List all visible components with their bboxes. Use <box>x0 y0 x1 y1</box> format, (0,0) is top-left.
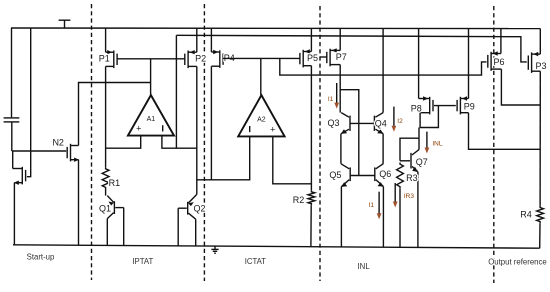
wire: N2 source to ground rail <box>78 160 80 246</box>
svg-text:P5: P5 <box>307 53 318 63</box>
op-amp A2 <box>238 95 284 136</box>
svg-text:P9: P9 <box>464 102 475 112</box>
wire: P1-P2 common gate line <box>117 58 185 60</box>
section label: Start-up <box>27 252 55 261</box>
svg-text:Q5: Q5 <box>329 170 341 180</box>
svg-text:I1: I1 <box>328 96 334 103</box>
svg-text:Q1: Q1 <box>99 203 111 213</box>
svg-text:A1: A1 <box>147 116 156 123</box>
svg-text:Q4: Q4 <box>375 118 387 128</box>
svg-text:IPTAT: IPTAT <box>132 257 153 266</box>
svg-text:R2: R2 <box>293 195 305 205</box>
section divider dashed line 1 (Start-up | IPTAT) <box>91 4 93 280</box>
current arrow IR3 <box>393 183 398 208</box>
wire: R4 bottom to ground <box>539 223 541 248</box>
current arrow I1 (top) <box>334 83 339 109</box>
wire: N1 drain from node line <box>12 151 14 169</box>
wire: branch to Q7 base and R3 <box>400 138 419 161</box>
wire: VDD top rail <box>11 27 540 30</box>
PMOS transistor P7 <box>327 48 340 66</box>
resistor R1 <box>102 167 109 189</box>
ground symbol (ICTAT) <box>211 246 218 253</box>
wire: Q2 base to ground <box>177 208 179 246</box>
op-amp A1 <box>128 95 174 136</box>
wire: N2 drain up to A1 output line <box>79 83 151 146</box>
wire: A1 minus input to node VB <box>162 136 197 149</box>
svg-text:P3: P3 <box>535 61 546 71</box>
VDD supply symbol <box>59 20 71 28</box>
wire: P4 drain down to A2 minus line <box>210 66 212 180</box>
wire: Q5 emitter to ground <box>340 187 342 247</box>
svg-text:R3: R3 <box>406 173 418 183</box>
current arrow I2 <box>392 107 397 132</box>
NMOS transistor N2 <box>67 144 79 162</box>
wire: Q4 emitter down to Q6 collector <box>382 134 384 164</box>
svg-text:I1: I1 <box>369 202 375 209</box>
svg-text:Q3: Q3 <box>327 118 339 128</box>
svg-text:I2: I2 <box>397 118 403 125</box>
svg-text:R4: R4 <box>520 210 532 220</box>
PMOS transistor P3 <box>528 52 540 73</box>
wire: bias line from gate line down and across to P6 gate <box>280 58 487 75</box>
wire: P1 source to VDD <box>105 28 107 52</box>
wire: P3 drain down output vertical to R4 <box>539 71 541 206</box>
wire: VEB2 line from H2 down to A1 minus line <box>175 35 177 148</box>
svg-text:+: + <box>136 124 141 134</box>
current arrow INL <box>425 132 430 154</box>
wire: R1 bottom to Q1 emitter <box>105 189 107 196</box>
svg-text:Q2: Q2 <box>193 204 205 214</box>
wire: Q3 emitter down to Q5 collector <box>340 134 342 164</box>
svg-text:Q7: Q7 <box>416 157 428 167</box>
section divider dashed line 2 (IPTAT | ICTAT) <box>203 4 205 281</box>
wire: P9 drain to output node <box>469 113 541 150</box>
section label: Output reference <box>488 258 547 267</box>
wire: ground bottom rail <box>13 245 540 248</box>
svg-text:Start-up: Start-up <box>27 252 55 261</box>
wire: A1 plus input to node VA <box>106 136 141 149</box>
section label: INL <box>358 262 371 271</box>
wire: branch from P7 drain to Q3/Q4 and Q5/Q6 bases <box>340 90 359 176</box>
wire: P8 gate-drain tie <box>420 106 438 128</box>
wire: A2 output up to gate line <box>260 58 262 95</box>
wire: Q4 collector riser to VDD <box>382 28 384 113</box>
wire: P8 source riser to VDD <box>418 28 420 99</box>
wire: P6 drain to output vertical <box>501 69 540 105</box>
PMOS transistor P9 <box>457 96 468 114</box>
wire: A1 output up to gate line <box>150 59 152 95</box>
svg-text:P7: P7 <box>336 52 347 62</box>
svg-text:IR3: IR3 <box>404 193 415 200</box>
wire: N1 source to ground <box>13 183 15 245</box>
wire: Q5-Q6 base line <box>350 175 375 177</box>
resistor R4 <box>537 206 544 223</box>
wire: Q3-Q4 base line <box>350 122 374 124</box>
wire: P7 source to VDD <box>339 28 341 50</box>
wire: P7 gate stub <box>320 56 327 58</box>
wire: P8 drain down to Q7 collector <box>418 128 420 150</box>
section label: ICTAT <box>245 257 267 266</box>
svg-text:ICTAT: ICTAT <box>245 257 267 266</box>
wire: Q6 emitter to ground <box>382 187 384 248</box>
PMOS transistor P1 <box>106 50 118 68</box>
svg-text:R1: R1 <box>109 178 121 188</box>
svg-text:INL: INL <box>432 140 443 147</box>
svg-text:Output reference: Output reference <box>488 258 547 267</box>
svg-text:P8: P8 <box>411 103 422 113</box>
wire: start-up node line to N2 gate <box>12 150 66 152</box>
current arrow I1 (bottom) <box>377 192 382 220</box>
PMOS transistor P6 <box>488 51 502 71</box>
wire: P4-P5 common gate line <box>223 57 300 59</box>
svg-text:P1: P1 <box>99 53 110 63</box>
BJT Q6 <box>375 164 384 187</box>
wire: H2 line from VEB2 to P3 gate <box>176 35 526 62</box>
wire: P8 gate to P9 gate line <box>434 105 456 107</box>
wire: P2 drain down to Q2 emitter (node VB) <box>196 66 198 194</box>
PMOS transistor P4 <box>211 50 223 68</box>
wire: P7 drain down to Q3 collector <box>339 65 341 113</box>
section divider dashed line 3 (ICTAT | INL) <box>319 6 321 281</box>
wire: P1 drain down through node VA to R1 <box>105 66 107 167</box>
wire: Q2 collector to ground <box>195 219 197 246</box>
svg-text:A2: A2 <box>257 117 266 124</box>
wire: Q7 emitter to ground <box>417 172 419 248</box>
wire: A2 minus input line (node VEB2b) <box>197 136 250 179</box>
svg-text:+: + <box>270 124 275 134</box>
wire: R3 bottom to ground <box>399 188 401 247</box>
NMOS transistor N1 (start-up) <box>13 167 26 185</box>
BJT Q4 <box>374 113 383 134</box>
PMOS transistor P8 <box>419 96 433 114</box>
wire: Q1 collector to ground <box>106 219 108 246</box>
PMOS transistor P5 <box>300 49 312 67</box>
resistor R2 <box>308 190 315 205</box>
wire: P4 source to VDD <box>210 28 212 52</box>
wire: P3 source riser to VDD <box>539 29 541 54</box>
svg-text:P6: P6 <box>493 57 504 67</box>
PMOS transistor P2 <box>185 50 197 68</box>
BJT Q2 (PNP diode-connected) <box>178 194 197 219</box>
BJT Q3 <box>341 113 350 134</box>
section divider dashed line 4 (INL | Output reference) <box>493 6 495 283</box>
BJT Q7 <box>400 150 419 173</box>
wire: N1 gate riser to VDD <box>27 28 31 177</box>
svg-text:Q6: Q6 <box>379 169 391 179</box>
svg-text:P2: P2 <box>195 53 206 63</box>
section label: IPTAT <box>132 257 153 266</box>
BJT Q1 (PNP diode-connected) <box>107 196 123 219</box>
wire: P5 source to VDD <box>310 28 312 52</box>
wire: A2 plus input line to R2 top <box>273 136 312 183</box>
wire: P9 source riser to VDD <box>468 28 470 99</box>
wire: P2 source to VDD <box>196 28 198 52</box>
wire: Q1 base to ground <box>123 208 125 246</box>
svg-text:N2: N2 <box>52 137 64 147</box>
svg-text:INL: INL <box>358 262 371 271</box>
resistor R3 <box>397 163 404 189</box>
capacitor C1 (start-up) <box>4 28 20 151</box>
wire: P5 drain down to R2 <box>310 66 312 191</box>
wire: R2 bottom to ground <box>310 205 312 246</box>
wire: P6 source riser to VDD <box>500 28 502 54</box>
BJT Q5 <box>341 164 350 187</box>
